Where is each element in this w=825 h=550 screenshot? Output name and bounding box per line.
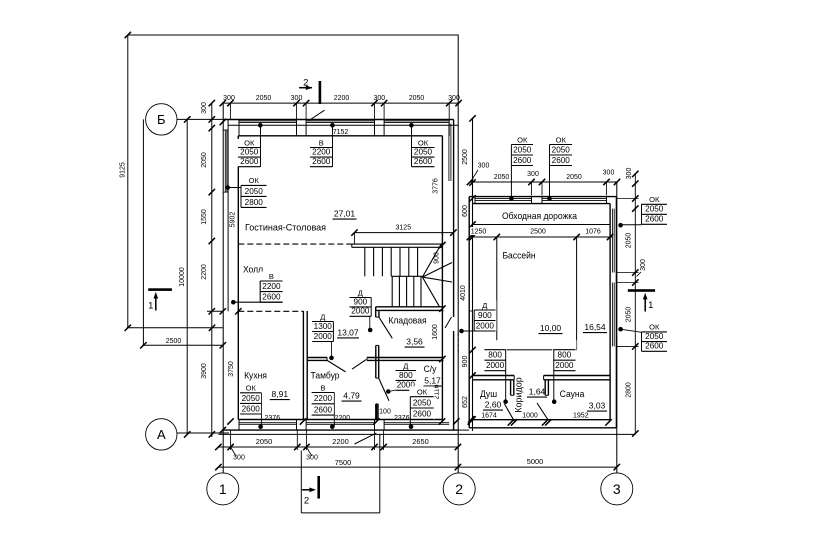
svg-text:ОК: ОК	[246, 384, 257, 393]
svg-text:1674: 1674	[481, 413, 497, 420]
svg-text:3125: 3125	[396, 225, 412, 232]
svg-text:300: 300	[448, 95, 460, 102]
svg-text:3750: 3750	[228, 361, 235, 377]
svg-text:2050: 2050	[414, 148, 433, 157]
svg-text:8,91: 8,91	[272, 389, 289, 399]
svg-text:900: 900	[478, 311, 492, 320]
svg-text:ОК: ОК	[649, 323, 660, 332]
svg-text:2600: 2600	[240, 157, 259, 166]
svg-text:5902: 5902	[230, 212, 237, 228]
svg-text:Душ: Душ	[480, 389, 497, 400]
svg-text:2050: 2050	[242, 394, 261, 403]
svg-text:2600: 2600	[413, 410, 432, 419]
svg-text:ОК: ОК	[517, 135, 528, 144]
svg-text:ОК: ОК	[418, 138, 429, 147]
svg-text:2200: 2200	[201, 264, 208, 280]
svg-text:2000: 2000	[486, 361, 505, 370]
svg-text:2,60: 2,60	[485, 400, 502, 410]
svg-text:2600: 2600	[513, 156, 532, 165]
svg-text:1600: 1600	[432, 324, 439, 340]
svg-text:1000: 1000	[522, 413, 538, 420]
svg-text:Кухня: Кухня	[244, 370, 267, 381]
svg-text:1: 1	[148, 301, 153, 312]
svg-text:ОК: ОК	[244, 138, 255, 147]
svg-text:2: 2	[304, 496, 309, 507]
svg-text:2: 2	[303, 78, 308, 89]
svg-text:10000: 10000	[179, 267, 186, 287]
svg-text:1550: 1550	[201, 209, 208, 225]
svg-text:1250: 1250	[471, 229, 487, 236]
svg-text:Тамбур: Тамбур	[311, 370, 340, 381]
svg-text:ОК: ОК	[417, 388, 428, 397]
svg-text:300: 300	[306, 455, 318, 462]
svg-text:3,56: 3,56	[406, 337, 423, 347]
svg-text:300: 300	[201, 102, 208, 114]
svg-text:2600: 2600	[414, 157, 433, 166]
svg-text:1,64: 1,64	[529, 387, 546, 397]
svg-text:2050: 2050	[201, 152, 208, 168]
svg-text:А: А	[157, 427, 166, 442]
svg-text:2200: 2200	[334, 95, 350, 102]
svg-text:2600: 2600	[552, 156, 571, 165]
svg-text:900: 900	[434, 252, 441, 264]
svg-text:900: 900	[462, 356, 469, 368]
svg-text:2050: 2050	[409, 95, 425, 102]
svg-text:Д: Д	[482, 301, 487, 310]
svg-text:2050: 2050	[240, 148, 259, 157]
svg-text:2000: 2000	[476, 321, 495, 330]
svg-text:2500: 2500	[530, 229, 546, 236]
svg-text:1: 1	[648, 300, 653, 311]
svg-text:3,03: 3,03	[589, 401, 606, 411]
svg-text:ОК: ОК	[556, 135, 567, 144]
svg-text:2376: 2376	[265, 415, 281, 422]
svg-text:ОК: ОК	[649, 195, 660, 204]
svg-text:Д: Д	[358, 288, 363, 297]
svg-text:300: 300	[291, 95, 303, 102]
svg-text:2200: 2200	[314, 394, 333, 403]
svg-text:652: 652	[462, 396, 469, 408]
svg-text:10,00: 10,00	[540, 323, 562, 333]
svg-text:Гостиная-Столовая: Гостиная-Столовая	[245, 222, 326, 232]
svg-text:Сауна: Сауна	[560, 389, 586, 400]
svg-text:2200: 2200	[332, 437, 348, 446]
svg-text:600: 600	[462, 205, 469, 217]
svg-text:1300: 1300	[314, 322, 333, 331]
svg-text:2200: 2200	[262, 282, 281, 291]
svg-text:ОК: ОК	[249, 176, 260, 185]
svg-text:2000: 2000	[351, 307, 370, 316]
svg-text:800: 800	[488, 351, 502, 360]
svg-text:13,07: 13,07	[337, 327, 359, 337]
svg-text:2500: 2500	[166, 338, 182, 345]
svg-text:2050: 2050	[413, 398, 432, 407]
svg-text:2050: 2050	[625, 233, 632, 249]
svg-text:5000: 5000	[527, 457, 543, 466]
svg-text:2800: 2800	[245, 198, 264, 207]
svg-text:7152: 7152	[333, 129, 349, 136]
svg-text:2650: 2650	[412, 437, 428, 446]
svg-text:Д: Д	[403, 361, 408, 370]
svg-text:2000: 2000	[555, 361, 574, 370]
svg-text:300: 300	[373, 95, 385, 102]
svg-text:27,01: 27,01	[334, 209, 356, 219]
svg-text:2: 2	[455, 481, 463, 497]
svg-text:2600: 2600	[645, 342, 664, 351]
svg-text:9125: 9125	[120, 162, 127, 178]
svg-text:4010: 4010	[460, 285, 467, 301]
svg-text:4,79: 4,79	[343, 391, 360, 401]
svg-text:2050: 2050	[494, 174, 510, 181]
svg-text:7500: 7500	[335, 458, 351, 467]
svg-text:Бассейн: Бассейн	[502, 250, 535, 261]
svg-text:800: 800	[558, 351, 572, 360]
svg-text:В: В	[319, 138, 324, 147]
svg-text:300: 300	[478, 163, 490, 170]
svg-text:2600: 2600	[314, 406, 333, 415]
svg-text:Коридор: Коридор	[514, 377, 524, 413]
svg-text:2000: 2000	[314, 332, 333, 341]
svg-text:300: 300	[626, 168, 633, 180]
svg-text:2050: 2050	[625, 307, 632, 323]
svg-text:300: 300	[603, 170, 615, 177]
svg-text:100: 100	[379, 408, 391, 415]
svg-text:1: 1	[219, 481, 227, 497]
svg-text:1952: 1952	[573, 413, 589, 420]
svg-text:300: 300	[527, 171, 539, 178]
svg-text:2600: 2600	[262, 293, 281, 302]
svg-text:2200: 2200	[312, 148, 331, 157]
svg-text:2050: 2050	[566, 174, 582, 181]
svg-text:2376: 2376	[394, 415, 410, 422]
svg-text:Кладовая: Кладовая	[388, 315, 426, 326]
svg-text:2500: 2500	[462, 149, 469, 165]
svg-text:Обходная дорожка: Обходная дорожка	[502, 211, 577, 221]
svg-text:3900: 3900	[201, 363, 208, 379]
svg-text:16,54: 16,54	[584, 322, 606, 332]
svg-text:2050: 2050	[645, 332, 664, 341]
svg-text:5,17: 5,17	[424, 376, 441, 386]
svg-text:2800: 2800	[625, 382, 632, 398]
svg-text:2600: 2600	[242, 404, 261, 413]
svg-text:Б: Б	[157, 112, 166, 127]
svg-text:С/у: С/у	[424, 364, 437, 375]
svg-text:2050: 2050	[513, 145, 532, 154]
svg-text:800: 800	[399, 371, 413, 380]
svg-text:2050: 2050	[245, 187, 264, 196]
svg-text:В: В	[320, 383, 325, 392]
svg-text:1076: 1076	[585, 229, 601, 236]
svg-text:2600: 2600	[645, 215, 664, 224]
svg-text:2050: 2050	[645, 205, 664, 214]
svg-text:2050: 2050	[256, 95, 272, 102]
svg-text:300: 300	[223, 95, 235, 102]
svg-text:2600: 2600	[312, 157, 331, 166]
svg-text:2050: 2050	[552, 145, 571, 154]
svg-text:2200: 2200	[335, 415, 351, 422]
svg-text:900: 900	[354, 297, 368, 306]
svg-text:2050: 2050	[256, 437, 272, 446]
svg-text:300: 300	[640, 259, 647, 271]
svg-text:300: 300	[233, 455, 245, 462]
svg-text:3: 3	[613, 481, 621, 497]
svg-text:3776: 3776	[433, 178, 440, 194]
svg-text:В: В	[269, 272, 274, 281]
svg-text:Д: Д	[320, 312, 325, 321]
